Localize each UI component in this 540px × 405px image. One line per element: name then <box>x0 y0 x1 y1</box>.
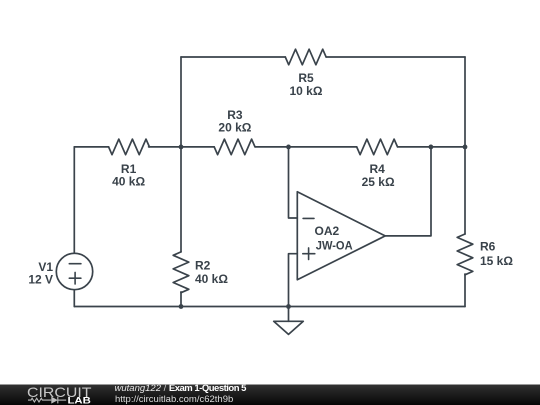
svg-text:LAB: LAB <box>68 396 92 405</box>
CircuitLab logo <box>26 384 98 405</box>
wire row left lead <box>74 146 108 148</box>
svg-text:10 kΩ: 10 kΩ <box>290 84 323 98</box>
wire left rail lower <box>73 290 75 307</box>
svg-text:12 V: 12 V <box>28 273 53 287</box>
svg-text:R5: R5 <box>298 71 314 85</box>
node at R2 bottom junction <box>179 304 184 309</box>
wire top-right riser <box>464 57 466 147</box>
voltage source V1 <box>56 253 92 289</box>
node at ground junction <box>286 304 291 309</box>
svg-text:40 kΩ: 40 kΩ <box>195 272 228 286</box>
resistor R6 <box>457 234 473 275</box>
wire R2 top lead <box>180 147 182 252</box>
wire top rail right segment <box>326 56 465 58</box>
wire left rail upper <box>73 147 75 253</box>
op-amp OA2 <box>297 192 385 280</box>
svg-text:20 kΩ: 20 kΩ <box>218 121 251 135</box>
node at R1/R3/R2 junction <box>179 145 184 150</box>
OA2 minus input mark <box>303 217 314 219</box>
wire top-left riser <box>180 57 182 147</box>
resistor R4 <box>357 139 398 155</box>
resistor R5 <box>285 49 326 65</box>
wire R3 to R4 <box>255 146 357 148</box>
wire R6 bottom lead <box>464 274 466 307</box>
wire ground stub <box>288 307 290 322</box>
svg-text:R2: R2 <box>195 258 211 272</box>
wire R6 top lead <box>464 147 466 234</box>
ground <box>274 321 304 334</box>
footer bar <box>0 384 540 405</box>
wire R4 to right rail <box>398 146 465 148</box>
svg-text:OA2: OA2 <box>315 224 340 238</box>
V1 plus mark <box>69 272 81 284</box>
svg-text:40 kΩ: 40 kΩ <box>112 175 145 189</box>
OA2 plus input mark <box>303 248 315 260</box>
node at R3/R4/inverting junction <box>286 145 291 150</box>
wire op-amp output <box>385 147 431 236</box>
footer line 1 <box>115 383 246 394</box>
svg-text:R6: R6 <box>480 240 496 254</box>
node at right rail junction <box>463 145 468 150</box>
wire R2 bottom lead <box>180 292 182 307</box>
V1 minus mark <box>69 263 81 265</box>
svg-text:25 kΩ: 25 kΩ <box>362 175 395 189</box>
footer line 2 <box>115 394 233 405</box>
wire non-inverting input branch <box>289 254 298 307</box>
resistor R1 <box>109 139 150 155</box>
resistor R3 <box>214 139 255 155</box>
node at R4/output junction <box>429 145 434 150</box>
resistor R2 <box>173 252 189 293</box>
wire bottom rail <box>74 306 465 308</box>
svg-text:15 kΩ: 15 kΩ <box>480 254 513 268</box>
wire top rail left segment <box>181 56 285 58</box>
wire R1 to R3 <box>149 146 215 148</box>
svg-text:JW-OA: JW-OA <box>316 238 353 252</box>
wire inverting input branch <box>289 147 298 218</box>
